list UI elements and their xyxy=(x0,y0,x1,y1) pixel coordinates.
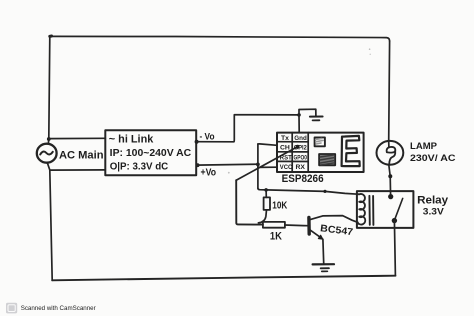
node: GPIO2 pin blob xyxy=(296,145,300,149)
svg-text:ESP8266: ESP8266 xyxy=(282,173,324,185)
wire: 10K bottom lead xyxy=(258,210,266,223)
svg-text:Scanned with CamScanner: Scanned with CamScanner xyxy=(21,305,96,312)
ESP pin grid column divider xyxy=(291,133,293,172)
wire: diagonal down-leg to 1K xyxy=(236,180,263,224)
ESP pin grid row lines xyxy=(277,141,308,143)
wire: emitter to ground xyxy=(322,239,325,263)
ESP antenna E shape xyxy=(342,136,360,166)
wire: bottom bus xyxy=(52,276,395,281)
svg-text:RST: RST xyxy=(280,154,292,161)
wire: 3.3V vertical rail xyxy=(257,144,259,188)
relay core bars xyxy=(368,196,370,225)
wire: relay NO contact to bottom bus xyxy=(394,221,395,276)
resistor R2 1K body xyxy=(263,222,285,228)
svg-text:BC547: BC547 xyxy=(320,223,355,238)
wire: top bus from AC main to lamp xyxy=(50,36,390,41)
node: +Vo rail junction xyxy=(256,163,260,167)
node: -Vo junction dot xyxy=(195,140,199,144)
ESP pin grid right border xyxy=(307,133,309,172)
svg-text:RX: RX xyxy=(296,164,306,171)
svg-text:IP: 100~240V AC: IP: 100~240V AC xyxy=(110,148,192,159)
ESP main chip (hatched) xyxy=(319,154,335,165)
svg-text:~ hi Link: ~ hi Link xyxy=(109,134,154,146)
svg-text:1K: 1K xyxy=(270,230,283,242)
ESP8266 module U1 outer box xyxy=(277,133,364,172)
node: 10K top junction xyxy=(264,188,268,192)
svg-text:Tx: Tx xyxy=(281,135,289,142)
svg-text:VCC: VCC xyxy=(280,164,293,171)
relay K1 box xyxy=(357,191,414,228)
svg-text:3.3V: 3.3V xyxy=(423,206,445,217)
wire: rail to CH pin xyxy=(258,144,277,145)
wire: AC top to Hi-Link input xyxy=(49,137,106,139)
node: +Vo junction dot xyxy=(196,163,200,167)
node: junction at AC top xyxy=(47,137,51,141)
relay switch blade xyxy=(395,198,403,219)
wire: AC bottom to Hi-Link input xyxy=(50,169,106,171)
wire: lamp feed vertical xyxy=(388,41,391,141)
svg-text:+Vo: +Vo xyxy=(201,167,217,178)
wire: 1K to transistor base xyxy=(285,224,308,227)
stray pen dot 2 xyxy=(370,54,371,55)
node: top-left corner junction xyxy=(50,35,52,38)
node: relay NO contact xyxy=(392,218,397,223)
wire: lamp to relay common xyxy=(389,165,391,197)
svg-text:Gnd: Gnd xyxy=(294,135,307,142)
lamp L1 circle xyxy=(377,141,404,165)
ESP small chip xyxy=(315,137,325,146)
relay coil loops xyxy=(358,194,365,225)
wire: +Vo to 3.3V vertical rail xyxy=(196,163,258,166)
node: rail blob xyxy=(323,190,326,193)
ground symbol below transistor xyxy=(313,263,334,265)
watermark icon xyxy=(6,303,17,314)
svg-text:CH: CH xyxy=(280,145,290,152)
resistor R1 10K body xyxy=(264,197,270,210)
AC source sine symbol xyxy=(40,152,53,155)
node: gnd junction dot xyxy=(297,113,301,117)
svg-text:LAMP: LAMP xyxy=(410,141,438,152)
wire: left vertical from top bus to AC source xyxy=(48,36,49,143)
svg-text:AC Main: AC Main xyxy=(59,149,104,161)
wire: AC bottom to left rail xyxy=(47,163,52,281)
AC source V1 circle xyxy=(37,144,57,163)
svg-text:10K: 10K xyxy=(272,201,288,212)
svg-text:- Vo: - Vo xyxy=(200,131,215,142)
svg-text:O|P: 3.3V dC: O|P: 3.3V dC xyxy=(110,162,169,173)
wire: rail to VCC pin xyxy=(258,166,277,168)
wire: down into Gnd pin xyxy=(298,115,300,132)
svg-text:Relay: Relay xyxy=(417,195,448,207)
wire: stub to ground symbol xyxy=(299,109,316,116)
svg-text:230V/ AC: 230V/ AC xyxy=(410,153,456,164)
ground symbol near ESP xyxy=(310,116,323,118)
wire: 3.3V horizontal rail to relay coil xyxy=(258,188,358,194)
wire: -Vo to ESP Gnd xyxy=(196,115,299,142)
node: blob on lamp-relay wire xyxy=(388,174,392,178)
Hi-Link power module U2 box xyxy=(105,130,196,175)
svg-text:GPI2: GPI2 xyxy=(294,145,307,152)
stray pen dot 3 xyxy=(228,172,230,174)
transistor Q1 collector xyxy=(309,216,358,223)
wire: GPIO2 diagonal xyxy=(236,147,297,180)
stray pen dot 1 xyxy=(369,48,371,50)
transistor Q1 BC547 base bar xyxy=(307,217,311,234)
svg-text:GPO0: GPO0 xyxy=(294,154,308,161)
lamp filament xyxy=(388,141,390,148)
transistor Q1 emitter with arrow xyxy=(309,229,321,238)
node: relay common contact xyxy=(388,194,393,199)
wire: 10K top lead xyxy=(265,190,267,198)
